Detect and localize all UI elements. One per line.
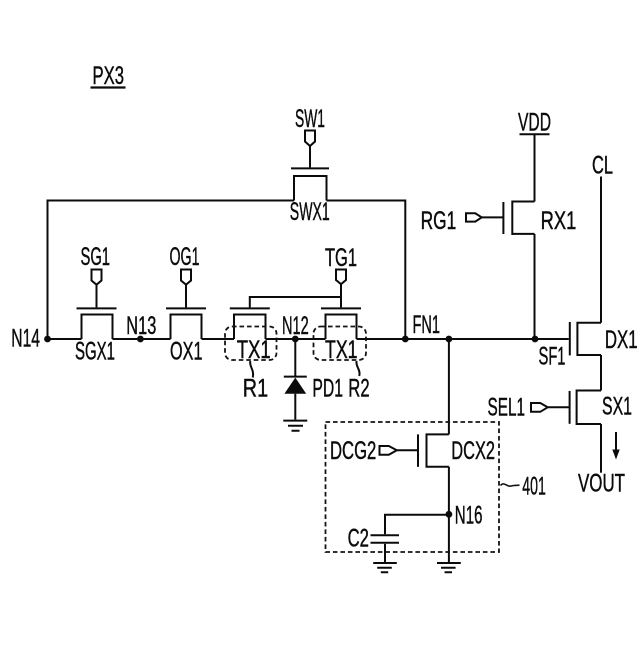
svg-text:VDD: VDD (518, 108, 551, 136)
svg-text:SX1: SX1 (602, 393, 632, 421)
wire SX1 source to VOUT (600, 424, 602, 473)
ground under C2 (373, 563, 397, 572)
wire segment OX1 to TX1a (202, 338, 235, 340)
wire segment TX1b to FN1 (357, 338, 406, 340)
node N16 (446, 511, 453, 518)
svg-text:PX3: PX3 (93, 62, 125, 90)
node N14 (44, 336, 51, 343)
dashed region R2 around TX1 right (314, 327, 367, 361)
capacitor C2 (371, 535, 400, 562)
svg-text:SGX1: SGX1 (75, 338, 115, 366)
node N13 (137, 336, 144, 343)
transistor DCX2 (397, 433, 449, 467)
wire DCX2 source down to ground (448, 467, 450, 562)
wire CL vertical to DX1 (600, 177, 602, 323)
junction node from RX1 (532, 336, 539, 343)
svg-text:CL: CL (592, 152, 613, 180)
transistor RX1 (482, 201, 535, 236)
svg-text:N13: N13 (126, 312, 156, 340)
PX3 title label (91, 62, 126, 90)
node N12 (292, 336, 299, 343)
wire left loop: N14 vertical up and top horizontal to SWX1 (48, 201, 295, 340)
svg-text:N16: N16 (455, 502, 483, 530)
gate terminal RG1 flag (466, 213, 482, 221)
transistor SGX1 (77, 285, 117, 340)
transistor TX1 (right) (321, 284, 361, 339)
junction node to DCX2 (446, 336, 453, 343)
svg-text:DCX2: DCX2 (451, 437, 495, 465)
leader to R1 (250, 361, 253, 378)
wire VDD to RX1 drain (534, 134, 536, 201)
gate terminal TG1 flag (336, 270, 346, 285)
svg-text:SEL1: SEL1 (488, 394, 526, 422)
svg-text:FN1: FN1 (413, 311, 441, 339)
svg-text:TX1: TX1 (325, 336, 358, 364)
svg-text:PD1: PD1 (312, 375, 343, 403)
svg-text:SW1: SW1 (295, 105, 325, 133)
power terminal VDD (518, 108, 551, 136)
transistor DX1 (570, 322, 601, 356)
wire RX1 source down to FN1 line (534, 234, 536, 339)
wire bottom row segment N14 to SGX1 (48, 338, 82, 340)
svg-text:401: 401 (522, 473, 546, 501)
photodiode PD1 (284, 339, 307, 420)
wire CL between DX1 and SX1 (600, 355, 602, 391)
svg-text:RG1: RG1 (421, 207, 457, 235)
ground under PD1 (283, 421, 307, 431)
svg-text:N14: N14 (11, 325, 40, 353)
svg-text:TG1: TG1 (325, 244, 357, 272)
gate terminal DCG2 flag (380, 446, 397, 455)
gate terminal SG1 flag (92, 270, 102, 285)
svg-text:VOUT: VOUT (578, 470, 625, 498)
wire FN1 junction down to DCX2 (448, 339, 450, 434)
leader to 401 (501, 484, 520, 486)
transistor TX1 (left) (230, 296, 270, 339)
wire segment TX1a to TX1b (266, 338, 326, 340)
gate terminal SEL1 flag (531, 403, 548, 412)
dashed region 401 (326, 422, 500, 552)
svg-text:DX1: DX1 (605, 326, 638, 354)
svg-text:DCG2: DCG2 (330, 437, 376, 465)
svg-text:RX1: RX1 (541, 207, 577, 235)
svg-text:SWX1: SWX1 (290, 198, 330, 226)
output arrow (612, 432, 619, 460)
svg-text:C2: C2 (348, 525, 369, 553)
svg-text:SF1: SF1 (539, 342, 566, 370)
transistor OX1 (166, 285, 206, 340)
wire TG1 gate connector (250, 296, 341, 298)
dashed region R1 around TX1 left (225, 327, 277, 361)
wire segment FN1 to DX1 gate (405, 338, 569, 340)
transistor SWX1 (291, 146, 329, 201)
svg-text:R1: R1 (243, 375, 268, 403)
wire top right: SWX1 to FN1 vertical (327, 201, 406, 340)
svg-text:OX1: OX1 (170, 338, 203, 366)
svg-text:R2: R2 (348, 375, 369, 403)
node FN1 (402, 336, 409, 343)
svg-text:OG1: OG1 (170, 243, 200, 271)
ground under DCX2 (437, 563, 461, 572)
svg-text:SG1: SG1 (81, 243, 111, 271)
svg-text:N12: N12 (282, 312, 309, 340)
transistor SX1 (548, 390, 602, 426)
leader to R2 (356, 361, 359, 376)
wire segment SGX1 to OX1 (113, 338, 171, 340)
wire N16 to capacitor C2 (385, 515, 449, 535)
gate terminal OG1 flag (181, 270, 191, 285)
gate terminal SW1 flag (305, 131, 315, 147)
